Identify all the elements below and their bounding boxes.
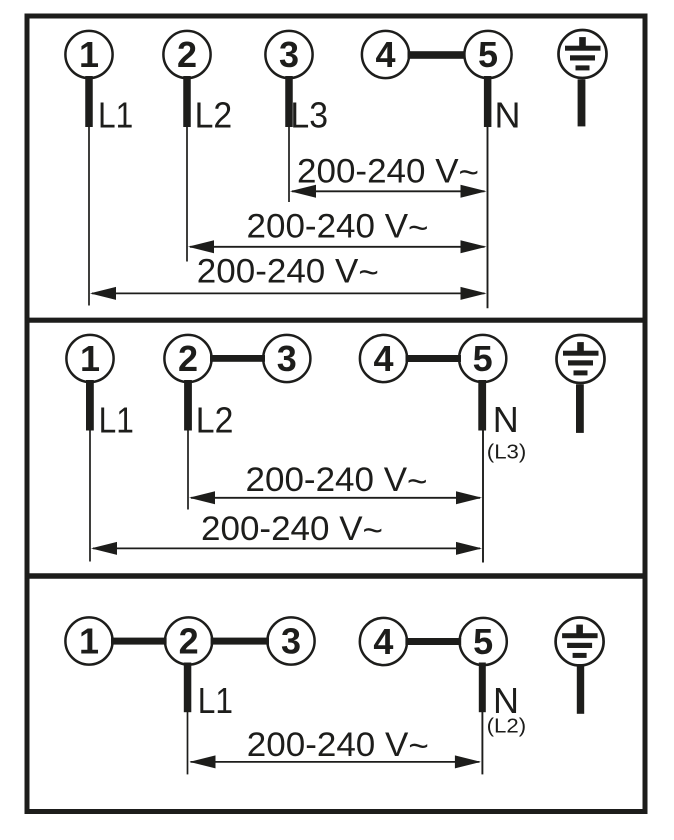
earth terminal (panel 1)	[559, 30, 607, 78]
extension line from terminal 1 (panel 1)	[88, 127, 90, 306]
svg-text:4: 4	[373, 338, 393, 379]
panel divider 2	[25, 573, 647, 579]
terminal 4 (panel 1)	[362, 31, 409, 78]
label (L2) (panel 3)	[487, 715, 526, 737]
svg-text:1: 1	[79, 620, 99, 661]
dimension arrow L1 to N (panel 1)	[90, 287, 487, 300]
terminal 4 (panel 3)	[360, 618, 407, 665]
svg-text:3: 3	[279, 34, 299, 75]
label L1 (panel 3)	[198, 680, 233, 721]
label 200-240 V~ L2-N (panel 2)	[246, 461, 428, 501]
svg-text:200-240 V~: 200-240 V~	[297, 152, 479, 192]
label L1 (panel 1)	[98, 95, 133, 136]
svg-text:5: 5	[478, 34, 498, 75]
terminal 3 (panel 1)	[265, 31, 312, 78]
extension line from terminal 2 (panel 3)	[187, 712, 189, 774]
svg-text:L1: L1	[99, 399, 134, 440]
terminal 2 lead wire (panel 2)	[184, 380, 192, 431]
earth lead wire (panel 1)	[578, 79, 586, 126]
svg-text:L3: L3	[290, 95, 328, 136]
svg-text:200-240 V~: 200-240 V~	[246, 461, 428, 501]
panel divider 1	[25, 318, 647, 323]
label L3 (panel 1)	[290, 95, 328, 136]
label 200-240 V~ L3-N (panel 1)	[297, 152, 479, 192]
svg-text:1: 1	[80, 338, 100, 379]
terminal 4 (panel 2)	[360, 335, 407, 382]
svg-text:4: 4	[375, 34, 395, 75]
label 200-240 V~ L1-N (panel 2)	[201, 510, 383, 550]
earth terminal (panel 2)	[557, 335, 605, 383]
extension line from terminal 5 N (panel 3)	[481, 712, 483, 774]
terminal 1 (panel 3)	[65, 617, 112, 664]
terminal 1 (panel 1)	[65, 31, 112, 78]
label 200-240 V~ L2-N (panel 1)	[247, 208, 429, 248]
terminal 5 (panel 2)	[459, 335, 506, 382]
label (L3) (panel 2)	[487, 441, 527, 463]
terminal 5 N lead wire (panel 1)	[484, 76, 492, 127]
svg-text:200-240 V~: 200-240 V~	[197, 252, 379, 292]
terminal 2 (panel 2)	[164, 335, 211, 382]
terminal 5 (panel 3)	[460, 618, 507, 665]
svg-text:5: 5	[473, 621, 493, 662]
jumper link 2-3 (panel 2)	[210, 355, 265, 362]
svg-text:L1: L1	[98, 95, 133, 136]
label 200-240 V~ L1-N (panel 1)	[197, 252, 379, 292]
dimension arrow L3 to N (panel 1)	[290, 185, 487, 198]
svg-text:5: 5	[473, 338, 493, 379]
terminal 3 (panel 3)	[267, 617, 314, 664]
svg-text:1: 1	[79, 34, 99, 75]
dimension arrow L2 to N (panel 1)	[188, 240, 487, 253]
terminal 1 lead wire (panel 2)	[86, 380, 94, 431]
dimension arrow L1 to N (panel 3)	[190, 755, 481, 768]
terminal 1 (panel 2)	[66, 335, 113, 382]
svg-text:2: 2	[177, 34, 197, 75]
extension line from terminal 1 (panel 2)	[89, 431, 91, 562]
jumper link 4-5 (panel 2)	[406, 355, 462, 362]
label L1 (panel 2)	[99, 399, 134, 440]
extension line from terminal 2 (panel 2)	[187, 431, 189, 510]
svg-text:4: 4	[373, 621, 393, 662]
jumper link 2-3 (panel 3)	[211, 638, 269, 645]
svg-text:L2: L2	[196, 399, 234, 440]
svg-text:200-240 V~: 200-240 V~	[247, 208, 429, 248]
jumper link 1-2 (panel 3)	[111, 638, 167, 645]
svg-text:L2: L2	[195, 95, 233, 136]
earth terminal (panel 3)	[556, 618, 604, 666]
terminal 2 (panel 1)	[163, 31, 210, 78]
dimension arrow L1 to N (panel 2)	[91, 542, 482, 555]
extension line from terminal 5 N (panel 1)	[487, 127, 489, 308]
svg-text:200-240 V~: 200-240 V~	[247, 726, 429, 766]
terminal 2 (panel 3)	[165, 617, 212, 664]
svg-text:2: 2	[179, 620, 199, 661]
terminal 1 lead wire (panel 1)	[85, 76, 93, 127]
svg-text:3: 3	[281, 620, 301, 661]
label 200-240 V~ L1-N (panel 3)	[247, 726, 429, 766]
extension line from terminal 2 (panel 1)	[186, 127, 188, 262]
earth lead wire (panel 3)	[577, 664, 584, 714]
terminal 3 (panel 2)	[263, 335, 310, 382]
terminal 3 lead wire (panel 1)	[285, 76, 293, 127]
terminal 5 (panel 1)	[464, 31, 511, 78]
svg-text:(L3): (L3)	[487, 441, 527, 463]
svg-text:L1: L1	[198, 680, 233, 721]
earth lead wire (panel 2)	[576, 384, 584, 433]
dimension arrow L2 to N (panel 2)	[189, 491, 482, 504]
terminal 2 lead wire (panel 3)	[184, 663, 192, 713]
svg-text:N: N	[493, 399, 519, 440]
terminal 5 N lead wire (panel 2)	[478, 380, 486, 431]
extension line from terminal 3 (panel 1)	[288, 127, 290, 202]
label N (panel 2)	[493, 399, 519, 440]
svg-text:200-240 V~: 200-240 V~	[201, 510, 383, 550]
label N (panel 1)	[495, 95, 521, 136]
extension line from terminal 5 N (panel 2)	[482, 430, 484, 563]
label L2 (panel 2)	[196, 399, 234, 440]
jumper link 4-5 (panel 3)	[405, 638, 461, 645]
svg-text:N: N	[495, 95, 521, 136]
terminal 5 N lead wire (panel 3)	[479, 663, 486, 713]
svg-text:2: 2	[178, 338, 198, 379]
jumper link 4-5 (panel 1)	[408, 51, 465, 59]
svg-text:3: 3	[277, 338, 297, 379]
label L2 (panel 1)	[195, 95, 233, 136]
label N (panel 3)	[493, 680, 519, 721]
svg-text:(L2): (L2)	[487, 715, 526, 737]
terminal 2 lead wire (panel 1)	[183, 76, 191, 127]
